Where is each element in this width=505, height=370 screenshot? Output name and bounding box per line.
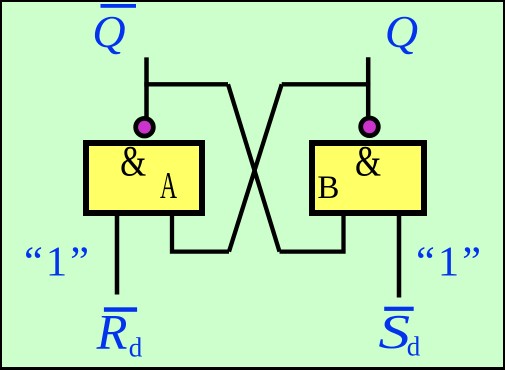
wire: diagonal from Q branch to gate A lower input bbox=[229, 84, 282, 251]
label Q bbox=[385, 6, 418, 57]
label R-bar-d bbox=[96, 304, 143, 363]
wire: bottom-left horizontal into gate A inner pin bbox=[172, 213, 229, 252]
wire: gate B outer input pin to S-bar label bbox=[397, 213, 402, 298]
gate A function label & bbox=[120, 139, 146, 186]
wire: left horizontal branch from Q-bar node bbox=[144, 82, 228, 86]
wire: right horizontal branch from Q node bbox=[282, 82, 371, 86]
wire: Q output vertical stub bbox=[366, 57, 371, 120]
label R-bar overline bbox=[104, 307, 137, 312]
gate B designator B bbox=[317, 170, 339, 206]
label S-bar overline bbox=[384, 307, 414, 311]
svg-text:d: d bbox=[407, 332, 421, 362]
label "1" right bbox=[416, 239, 484, 286]
svg-text:&: & bbox=[355, 139, 381, 186]
svg-text:Q: Q bbox=[385, 6, 418, 57]
NAND gate A body bbox=[86, 143, 202, 213]
wire: gate A outer input pin to R-bar label bbox=[115, 213, 120, 295]
svg-text:Q: Q bbox=[92, 6, 125, 57]
label "1" left bbox=[24, 239, 92, 286]
wire: bottom-right horizontal into gate B inner pin bbox=[280, 213, 344, 252]
inversion bubble on gate B output bbox=[361, 118, 379, 136]
inversion bubble on gate A output bbox=[136, 118, 154, 136]
label S-bar-d bbox=[378, 306, 420, 361]
gate A designator A bbox=[160, 164, 177, 206]
svg-text:S: S bbox=[378, 306, 410, 359]
svg-text:A: A bbox=[160, 164, 177, 206]
svg-text:&: & bbox=[120, 139, 146, 186]
wire: Q-bar output vertical stub bbox=[144, 57, 149, 120]
wire: diagonal from Q-bar branch to gate B lower input bbox=[228, 84, 280, 251]
label Q-bar bbox=[92, 6, 125, 57]
NAND gate B body bbox=[312, 143, 424, 213]
gate B function label & bbox=[355, 139, 381, 186]
svg-text:B: B bbox=[317, 170, 339, 206]
svg-text:d: d bbox=[129, 333, 143, 363]
svg-text:R: R bbox=[96, 304, 128, 359]
svg-text:“1”: “1” bbox=[416, 239, 484, 286]
label Q-bar overline bbox=[101, 4, 137, 8]
svg-text:“1”: “1” bbox=[24, 239, 92, 286]
